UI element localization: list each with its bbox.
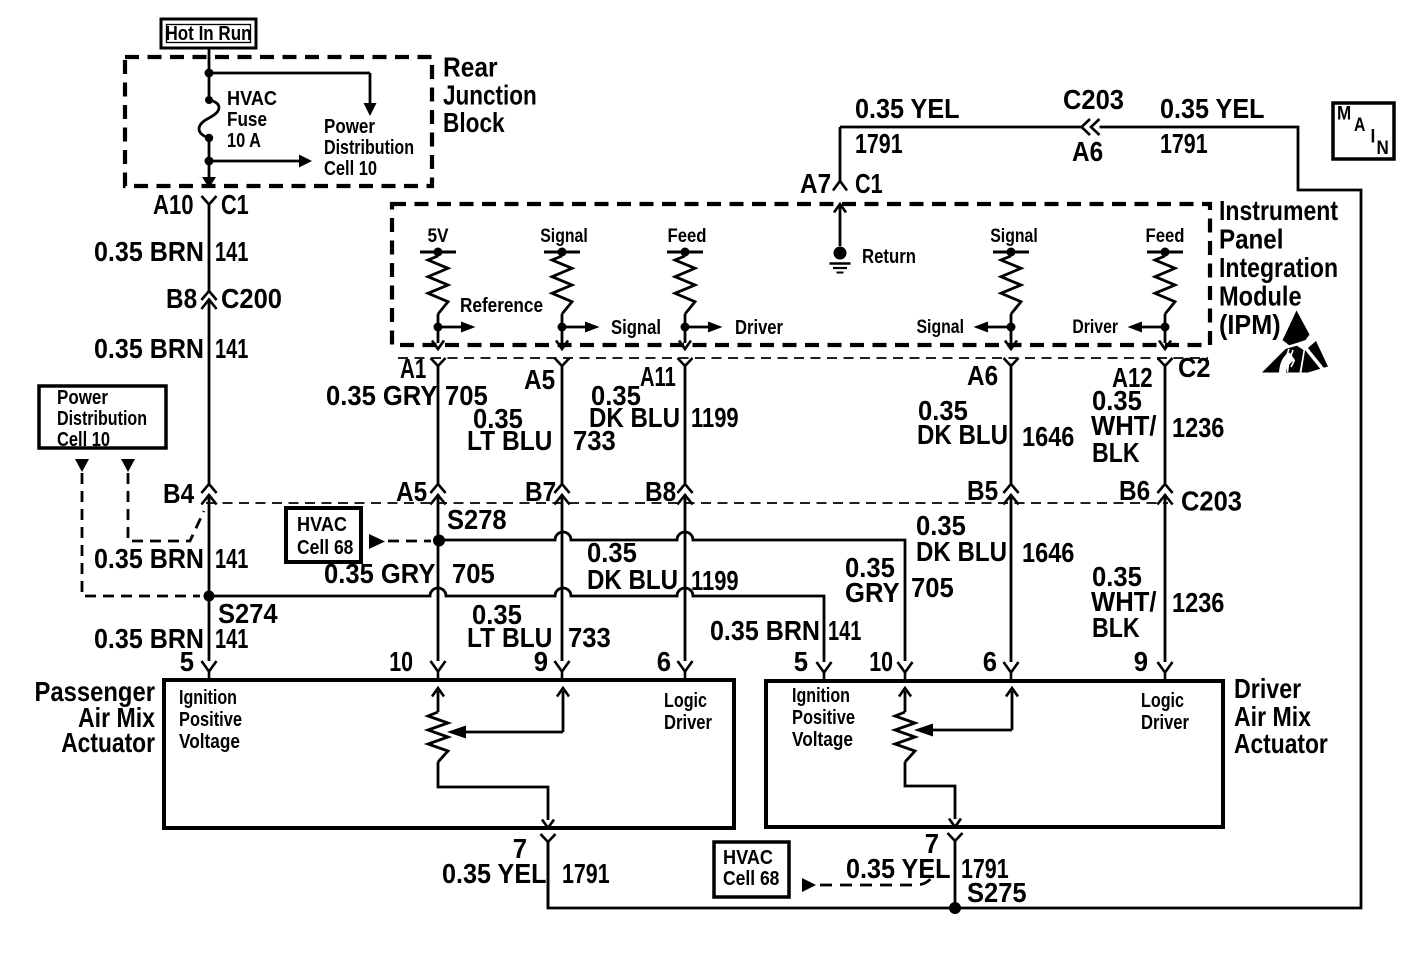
dashed wire power distribution to B4 <box>128 473 204 541</box>
connector C2 pin A5 <box>524 358 570 395</box>
svg-text:0.35 BRN: 0.35 BRN <box>94 236 204 267</box>
wire 0.35 LT BLU 733 (A5-B7) <box>561 366 564 484</box>
svg-text:0.35 YEL: 0.35 YEL <box>846 853 951 884</box>
IPM label <box>1219 195 1338 340</box>
dashed arrow HVAC to S275 <box>802 874 934 892</box>
pin 9 passenger <box>534 646 570 681</box>
svg-text:Actuator: Actuator <box>1234 728 1328 759</box>
svg-text:10 A: 10 A <box>227 130 261 152</box>
connector C2 pin A6 <box>967 358 1019 391</box>
label logic driver (drv) <box>1141 690 1189 734</box>
potentiometer passenger <box>428 688 569 762</box>
svg-text:5V: 5V <box>427 226 448 247</box>
label 0.35 LT BLU 733 top <box>467 403 616 456</box>
wire pot passenger to pin 7 <box>438 762 554 828</box>
svg-text:HVAC: HVAC <box>297 514 347 536</box>
label 0.35 WHT/BLK 1236 top <box>1091 385 1224 468</box>
label 0.35 DK BLU 1199 mid <box>587 537 739 596</box>
svg-text:A6: A6 <box>1072 136 1103 167</box>
svg-text:B8: B8 <box>166 283 197 314</box>
connector C2 pin A12 <box>1112 358 1173 393</box>
pin 10 driver <box>869 646 912 682</box>
wire 0.35 BRN 141 (S274 to driver 5) <box>214 588 824 662</box>
svg-text:1646: 1646 <box>1022 537 1074 568</box>
svg-text:0.35 BRN: 0.35 BRN <box>94 333 204 364</box>
pin 7 driver <box>925 828 963 908</box>
connector C200 pin B8 <box>166 283 282 314</box>
svg-text:Panel: Panel <box>1219 224 1283 255</box>
power distribution cell 10 box <box>39 386 166 451</box>
svg-text:9: 9 <box>534 646 548 677</box>
svg-text:C1: C1 <box>221 189 249 220</box>
svg-text:6: 6 <box>983 646 997 677</box>
arrow up return <box>834 204 846 246</box>
pin 9 driver <box>1134 646 1173 682</box>
svg-text:Driver: Driver <box>664 712 712 734</box>
label Reference <box>460 295 543 317</box>
label 0.35 GRY 705 top <box>326 380 488 411</box>
svg-text:Driver: Driver <box>1234 673 1301 704</box>
svg-text:733: 733 <box>568 622 611 653</box>
svg-text:Voltage: Voltage <box>792 729 853 751</box>
svg-text:Instrument: Instrument <box>1219 195 1338 226</box>
svg-text:Voltage: Voltage <box>179 731 240 753</box>
connector C203 pin B7 <box>525 476 570 507</box>
rear junction block box <box>125 57 432 186</box>
pin 6 passenger <box>657 646 693 681</box>
label Signal r4 <box>917 317 965 338</box>
svg-text:10: 10 <box>869 646 893 677</box>
svg-text:Distribution: Distribution <box>324 137 414 159</box>
wire 0.35 BRN 141 (B4 to S274) <box>208 495 211 661</box>
label Signal r4 top <box>990 226 1038 247</box>
connector C1 pin A7 <box>833 127 847 191</box>
pin 5 passenger actuator <box>180 646 217 681</box>
wire 0.35 YEL 1791 left <box>840 126 1081 129</box>
svg-text:Positive: Positive <box>792 707 855 729</box>
svg-text:A5: A5 <box>524 364 555 395</box>
svg-text:Signal: Signal <box>917 317 965 338</box>
svg-text:705: 705 <box>911 572 954 603</box>
svg-text:1236: 1236 <box>1172 587 1224 618</box>
svg-text:C203: C203 <box>1181 486 1242 517</box>
svg-text:1791: 1791 <box>855 128 903 159</box>
svg-text:B4: B4 <box>163 478 194 509</box>
svg-text:B5: B5 <box>967 475 998 506</box>
label 1791 right <box>1160 128 1208 159</box>
connector line C203 dashed <box>206 502 1168 504</box>
wire branch to power distribution <box>209 73 370 105</box>
connector C2 pin A1 <box>400 353 446 384</box>
label C203 right <box>1181 486 1242 517</box>
svg-text:DK BLU: DK BLU <box>589 402 680 433</box>
svg-text:Ignition: Ignition <box>179 687 237 709</box>
svg-text:BLK: BLK <box>1092 612 1140 643</box>
wire 0.35 BRN 141 (C1 to C200) <box>208 204 211 291</box>
label Signal r2 top <box>540 226 588 247</box>
svg-text:DK BLU: DK BLU <box>916 536 1007 567</box>
label 0.35 GRY 705 mid <box>324 558 495 589</box>
label ignition positive voltage (drv) <box>792 685 855 751</box>
label 0.35 GRY 705 right <box>845 552 954 608</box>
connector C203 pin B5 <box>967 475 1019 506</box>
fuse label HVAC Fuse 10 A <box>227 88 277 152</box>
svg-text:705: 705 <box>452 558 495 589</box>
potentiometer driver <box>895 688 1018 762</box>
driver actuator label <box>1234 673 1328 759</box>
svg-text:Integration: Integration <box>1219 252 1338 283</box>
svg-text:Return: Return <box>862 246 916 268</box>
wire 0.35 GRY 705 (A1-A5) <box>437 366 440 484</box>
svg-text:I: I <box>1371 127 1376 148</box>
junction block feed label Hot In Run <box>161 19 256 48</box>
passenger air mix actuator box <box>164 680 734 828</box>
wire 0.35 GRY 705 (S278 to driver 10) <box>443 532 905 661</box>
svg-text:A: A <box>1354 115 1366 136</box>
svg-text:Signal: Signal <box>990 226 1038 247</box>
splice S274 <box>204 591 278 630</box>
rear junction block label <box>443 52 537 139</box>
svg-text:DK BLU: DK BLU <box>587 564 678 595</box>
svg-text:Power: Power <box>57 387 108 409</box>
svg-text:1236: 1236 <box>1172 412 1224 443</box>
svg-text:HVAC: HVAC <box>723 847 773 869</box>
svg-text:1199: 1199 <box>691 565 739 596</box>
svg-text:Cell 68: Cell 68 <box>723 868 779 890</box>
label 0.35 BRN 141 #2 <box>94 333 248 364</box>
label 0.35 DK BLU 1646 mid <box>916 510 1074 568</box>
svg-text:141: 141 <box>828 615 861 646</box>
label A10 <box>153 189 194 220</box>
label 0.35 BRN 141 #3 <box>94 543 248 574</box>
splice S278 <box>433 504 507 547</box>
label 0.35 BRN 141 #4 <box>94 623 248 654</box>
wire 0.35 GRY 705 (A5 to pass 10) <box>437 495 440 661</box>
label C203 top <box>1063 84 1124 115</box>
svg-text:5: 5 <box>794 646 808 677</box>
wire 0.35 DK BLU 1646 (A6-B5) <box>1010 366 1013 484</box>
svg-text:Positive: Positive <box>179 709 242 731</box>
label Return <box>862 246 916 268</box>
splice S275 <box>949 902 961 914</box>
svg-text:C203: C203 <box>1063 84 1124 115</box>
svg-text:0.35 YEL: 0.35 YEL <box>1160 93 1265 124</box>
label 0.35 BRN 141 right <box>710 615 861 646</box>
pin 7 passenger <box>513 833 556 908</box>
label 0.35 WHT/BLK 1236 mid <box>1091 561 1224 643</box>
svg-text:C2: C2 <box>1178 352 1211 383</box>
ESD sensitivity symbol <box>1262 311 1328 373</box>
IPM resistor signal left <box>544 248 600 350</box>
wire fuse to junction <box>208 138 211 161</box>
svg-text:1199: 1199 <box>691 402 739 433</box>
svg-text:S275: S275 <box>967 877 1027 908</box>
ground return <box>830 247 851 273</box>
arrow to power distribution cell 10 <box>209 155 312 168</box>
svg-text:S278: S278 <box>447 504 507 535</box>
wire hot-in-run to fuse <box>208 48 211 101</box>
connector line C2 dashed <box>398 357 1208 359</box>
label 0.35 LT BLU 733 mid <box>467 599 611 653</box>
svg-text:A11: A11 <box>640 361 676 392</box>
svg-text:DK BLU: DK BLU <box>917 419 1008 450</box>
junction dot RJB top <box>205 69 214 78</box>
connector C203 pin B6 <box>1119 475 1173 506</box>
svg-text:Cell 10: Cell 10 <box>57 429 110 451</box>
connector C203 A6 inline <box>1082 119 1100 135</box>
label 0.35 DK BLU 1646 top <box>917 395 1074 452</box>
IPM resistor feed right <box>1128 248 1184 350</box>
label ignition positive voltage (pass) <box>179 687 242 753</box>
label C1 (A7) <box>855 168 883 199</box>
label 0.35 YEL 1791 (pass) <box>442 858 610 889</box>
svg-text:6: 6 <box>657 646 671 677</box>
svg-text:Power: Power <box>324 116 375 138</box>
svg-text:0.35 GRY: 0.35 GRY <box>324 558 436 589</box>
svg-text:Distribution: Distribution <box>57 408 147 430</box>
label Driver r5 <box>1072 317 1118 338</box>
wire 0.35 WHT/BLK 1236 (A12-B6) <box>1164 366 1167 484</box>
svg-text:5: 5 <box>180 646 194 677</box>
label Driver r3 <box>735 317 783 339</box>
arrowhead power distribution <box>364 103 377 116</box>
connector C203 pin A5 <box>396 476 446 507</box>
wire 0.35 DK BLU 1646 (B5 to drv 6) <box>1010 495 1013 662</box>
svg-text:141: 141 <box>215 333 248 364</box>
label 5V <box>427 226 448 247</box>
svg-text:Driver: Driver <box>1141 712 1189 734</box>
wire 0.35 DK BLU 1199 (B8 to pass 6) <box>684 495 687 661</box>
wire 0.35 LT BLU 733 (B7 to pass 9) <box>561 495 564 661</box>
connector C1 pin A10 <box>202 196 217 205</box>
IPM resistor signal right <box>974 248 1030 350</box>
label C1 (top) <box>221 189 249 220</box>
MAIN page marker <box>1333 103 1394 159</box>
label Signal r2 <box>611 317 661 339</box>
HVAC cell 68 box (bottom) <box>714 842 789 897</box>
label 0.35 YEL 1791 S275 (drv) <box>846 853 1027 908</box>
label A6 top <box>1072 136 1103 167</box>
svg-text:N: N <box>1377 138 1389 159</box>
svg-text:Signal: Signal <box>611 317 661 339</box>
svg-text:A6: A6 <box>967 360 998 391</box>
wire 0.35 WHT/BLK 1236 (B6 to drv 9) <box>1164 495 1167 662</box>
svg-text:Ignition: Ignition <box>792 685 850 707</box>
wire pot driver to pin 7 <box>905 762 961 827</box>
label logic driver (pass) <box>664 690 712 734</box>
fuse F HVAC 10A <box>199 96 219 142</box>
label A7 <box>800 168 831 199</box>
svg-text:1791: 1791 <box>1160 128 1208 159</box>
svg-text:0.35 BRN: 0.35 BRN <box>710 615 820 646</box>
wire 0.35 DK BLU 1199 (A11-B8) <box>684 366 687 484</box>
svg-text:141: 141 <box>215 623 248 654</box>
instrument panel integration module box <box>392 204 1210 345</box>
svg-text:1646: 1646 <box>1022 421 1074 452</box>
svg-text:GRY: GRY <box>845 577 900 608</box>
label C2 <box>1178 352 1211 383</box>
svg-text:0.35 GRY: 0.35 GRY <box>326 380 438 411</box>
driver air mix actuator box <box>766 681 1223 827</box>
svg-text:1791: 1791 <box>562 858 610 889</box>
svg-text:Logic: Logic <box>664 690 707 712</box>
svg-text:Fuse: Fuse <box>227 109 267 131</box>
svg-text:Junction: Junction <box>443 80 537 111</box>
svg-text:Cell 10: Cell 10 <box>324 158 377 180</box>
svg-text:Reference: Reference <box>460 295 543 317</box>
svg-text:Module: Module <box>1219 281 1302 312</box>
svg-text:Driver: Driver <box>1072 317 1118 338</box>
svg-text:C200: C200 <box>221 283 282 314</box>
power distribution cell 10 text (RJB) <box>324 116 414 180</box>
label Feed r5 top <box>1146 226 1185 247</box>
pin 5 driver <box>794 646 832 682</box>
svg-text:Hot In Run: Hot In Run <box>166 23 252 45</box>
IPM resistor 5V reference <box>420 248 476 350</box>
svg-text:B7: B7 <box>525 476 556 507</box>
svg-text:A10: A10 <box>153 189 194 220</box>
label 0.35 YEL right <box>1160 93 1265 124</box>
svg-text:Logic: Logic <box>1141 690 1184 712</box>
svg-text:141: 141 <box>215 236 248 267</box>
svg-text:10: 10 <box>389 646 413 677</box>
arrowhead dashed feed 1 <box>75 459 89 472</box>
svg-text:Actuator: Actuator <box>61 727 155 758</box>
svg-text:LT BLU: LT BLU <box>467 425 552 456</box>
svg-text:0.35 YEL: 0.35 YEL <box>442 858 547 889</box>
svg-text:BLK: BLK <box>1092 437 1140 468</box>
svg-text:A7: A7 <box>800 168 831 199</box>
wire 0.35 BRN 141 (C200 to B4) <box>208 300 211 484</box>
junction dot RJB bottom <box>205 157 214 166</box>
svg-text:Cell 68: Cell 68 <box>297 537 353 559</box>
svg-text:141: 141 <box>215 543 248 574</box>
pin 10 passenger <box>389 646 445 681</box>
svg-text:HVAC: HVAC <box>227 88 277 110</box>
label 1791 left <box>855 128 903 159</box>
wire 0.35 YEL 1791 right <box>548 127 1361 908</box>
connector C203 pin B8b <box>645 476 693 507</box>
arrow down out of RJB <box>202 161 216 188</box>
dashed wire power distribution to S274 <box>82 473 200 596</box>
svg-text:Signal: Signal <box>540 226 588 247</box>
HVAC cell 68 box (mid) <box>286 508 361 562</box>
svg-text:Block: Block <box>443 107 505 138</box>
svg-text:Feed: Feed <box>1146 226 1185 247</box>
label 0.35 DK BLU 1199 top <box>589 380 739 433</box>
label 0.35 YEL left <box>855 93 960 124</box>
svg-text:Feed: Feed <box>668 226 707 247</box>
pin 6 driver <box>983 646 1019 682</box>
svg-text:M: M <box>1337 104 1351 125</box>
dashed arrow HVAC to S278 <box>369 534 431 549</box>
label Feed r3 top <box>668 226 707 247</box>
connector C2 pin A11 <box>640 358 693 392</box>
arrowhead dashed feed 2 <box>121 459 135 472</box>
svg-text:C1: C1 <box>855 168 883 199</box>
svg-text:A5: A5 <box>396 476 427 507</box>
IPM resistor feed left <box>667 248 723 350</box>
svg-text:(IPM): (IPM) <box>1219 309 1281 340</box>
connector C203 pin B4 <box>163 478 217 509</box>
svg-text:9: 9 <box>1134 646 1148 677</box>
svg-text:0.35 BRN: 0.35 BRN <box>94 543 204 574</box>
passenger actuator label <box>35 676 156 758</box>
svg-text:Rear: Rear <box>443 52 498 83</box>
svg-text:Driver: Driver <box>735 317 783 339</box>
svg-text:B8: B8 <box>645 476 676 507</box>
svg-text:0.35 YEL: 0.35 YEL <box>855 93 960 124</box>
label 0.35 BRN 141 #1 <box>94 236 248 267</box>
svg-text:B6: B6 <box>1119 475 1150 506</box>
